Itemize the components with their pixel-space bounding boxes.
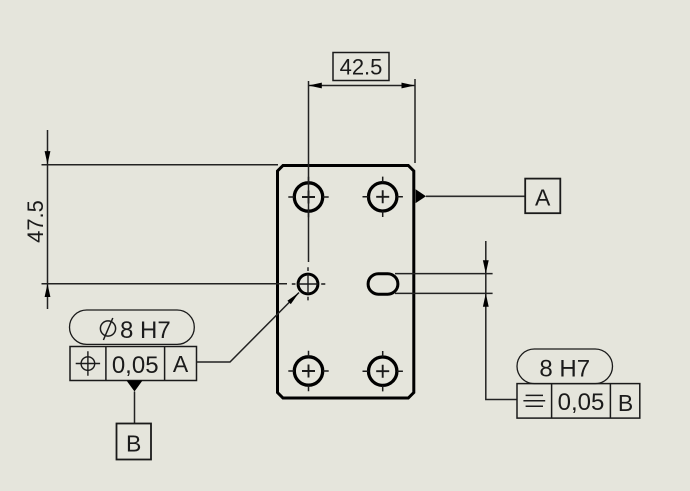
dimension 47.5: top arrow (45, 151, 51, 164)
position feature control frame (0,05 A) (70, 347, 197, 381)
datum A triangle on plate edge (416, 189, 426, 203)
leader from FCF to small hole (197, 293, 300, 363)
hole bottom-right (363, 351, 403, 391)
hole top-left (288, 177, 328, 217)
symmetry feature control frame (0,05 B) (517, 384, 640, 419)
leader arrowhead (287, 293, 299, 305)
svg-text:8 H7: 8 H7 (539, 355, 590, 382)
svg-text:A: A (535, 184, 551, 210)
svg-text:A: A (173, 351, 189, 377)
dimension 47.5: dimension line (47, 130, 49, 309)
svg-text:47.5: 47.5 (23, 200, 48, 243)
dimension 47.5: bottom arrow (45, 284, 51, 297)
dimension 47.5: bottom extension line (42, 283, 288, 285)
datum reference A (173, 351, 189, 377)
svg-text:0,05: 0,05 (112, 352, 159, 379)
datum B box (117, 424, 152, 460)
datum B triangle (127, 381, 143, 392)
datum A leader (426, 195, 525, 197)
capsule d8 H7 (70, 310, 195, 344)
dimension 42.5: left extension / centerline (308, 81, 310, 262)
capsule 8 H7 (slot) (517, 349, 613, 384)
position symbol (76, 351, 100, 375)
small hole (datum B hole, d8 H7) (292, 267, 326, 300)
hole top-right (363, 177, 403, 217)
symmetry symbol (523, 395, 545, 406)
dimension 42.5: right arrow (402, 83, 415, 89)
dimension 42.5: left arrow (309, 83, 322, 89)
position tolerance value (112, 352, 159, 379)
slot dimension: top extension line (395, 273, 493, 275)
datum A box (525, 179, 560, 214)
svg-text:B: B (126, 431, 141, 457)
slot dimension: top arrow (483, 260, 489, 273)
svg-text:0,05: 0,05 (558, 389, 605, 416)
dimension 47.5: top extension line (42, 164, 279, 166)
svg-text:42.5: 42.5 (340, 55, 383, 80)
dimension 42.5: right extension line (414, 79, 416, 163)
slot (8 H7) (368, 274, 398, 295)
svg-text:B: B (618, 390, 633, 416)
datum B stem (134, 392, 136, 424)
dimension 47.5: text (23, 200, 48, 243)
dimension 42.5: dimension line (309, 85, 415, 87)
plate outline (278, 166, 414, 399)
slot dimension: vertical dimension line (486, 241, 517, 400)
symmetry tolerance value (558, 389, 605, 416)
hole bottom-left (288, 351, 328, 391)
slot dimension: bottom arrow (483, 293, 489, 306)
datum reference B (618, 390, 633, 416)
dimension 42.5: boxed text (333, 53, 389, 81)
svg-text:8 H7: 8 H7 (120, 317, 171, 344)
slot dimension: bottom extension line (395, 292, 493, 294)
